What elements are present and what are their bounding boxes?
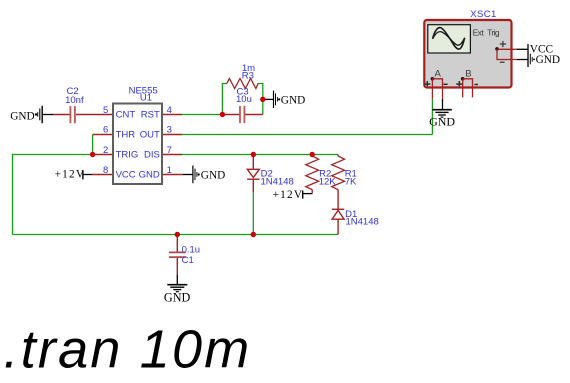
svg-text:1N4148: 1N4148	[346, 217, 379, 228]
screen	[428, 25, 471, 53]
ground below scope A-	[429, 110, 455, 129]
wire trig-left horizontal	[13, 154, 93, 156]
svg-text:GND: GND	[139, 169, 160, 180]
resistor R2	[306, 155, 336, 190]
resistor R1	[332, 155, 357, 190]
resistor R3	[227, 63, 258, 88]
wire C1 bottom lead	[176, 257, 178, 275]
svg-text:CNT: CNT	[116, 110, 136, 121]
wire TRIG stub	[93, 154, 113, 156]
wire D2 bottom lead	[252, 179, 254, 192]
svg-text:+12V: +12V	[55, 169, 86, 181]
wire R2 bottom lead	[311, 190, 313, 194]
capacitor C1	[169, 245, 200, 266]
A terminal dot	[431, 77, 435, 81]
svg-text:1: 1	[167, 165, 172, 176]
wire C3 right lead	[245, 114, 263, 116]
wire VCC pin8 stub	[92, 174, 113, 176]
junction dots	[90, 97, 315, 238]
svg-text:+12V: +12V	[273, 189, 304, 201]
svg-text:DIS: DIS	[144, 150, 160, 161]
node R2 top	[310, 152, 315, 157]
svg-text:3: 3	[167, 125, 172, 136]
node TRIG junction	[90, 152, 95, 157]
svg-text:Ext Trig: Ext Trig	[473, 28, 500, 38]
node R3 right / gnd tap	[260, 97, 265, 102]
wire C1 top lead	[176, 235, 178, 253]
svg-text:GND: GND	[201, 169, 225, 181]
wire D2 top lead	[252, 155, 254, 170]
svg-text:GND: GND	[10, 110, 34, 122]
B terminal dot	[461, 77, 465, 81]
wire C3 left lead	[222, 114, 239, 116]
svg-text:VCC: VCC	[116, 169, 136, 180]
ground symbol right (scope)	[530, 54, 560, 66]
svg-text:1N4148: 1N4148	[261, 176, 294, 187]
wire A- bracket	[432, 49, 516, 99]
wire red stubs	[53, 115, 338, 276]
wire C2 left lead	[53, 114, 70, 116]
svg-text:TRIG: TRIG	[116, 150, 139, 161]
wire RST to C3	[182, 114, 222, 116]
wire left rail vertical	[12, 154, 14, 235]
wire +12v R2 lead	[303, 193, 313, 195]
sine wave	[433, 28, 465, 49]
svg-text:THR: THR	[116, 129, 136, 140]
svg-text:C1: C1	[182, 255, 194, 266]
svg-text:7: 7	[167, 145, 172, 156]
svg-text:2: 2	[103, 145, 108, 156]
wire OUT stub	[162, 134, 182, 136]
wire gnd-pin1 lead	[183, 174, 193, 176]
wire OUT up to scope A+	[431, 99, 433, 135]
black wire segments	[42, 99, 312, 284]
wire GND pin1 stub	[162, 174, 183, 176]
ground right of C3	[274, 91, 306, 108]
wire bottom rail	[13, 234, 339, 236]
diode D1	[332, 209, 379, 228]
wire THR vertical	[92, 135, 94, 155]
svg-text:RST: RST	[141, 110, 160, 121]
svg-text:B: B	[465, 69, 471, 80]
trig terminal dot	[495, 47, 499, 51]
wire gnd-c3 lead	[264, 98, 273, 100]
ground left of C2	[10, 106, 42, 123]
wire D2 bottom segment	[252, 192, 254, 234]
wire C1 gnd lead	[176, 275, 178, 284]
node D2 bottom	[251, 232, 256, 237]
svg-text:GND: GND	[536, 54, 560, 66]
diode D2	[247, 168, 294, 187]
trig minus	[500, 61, 505, 63]
wire trig vcc black leads	[443, 49, 528, 109]
wire DIS stub	[162, 154, 182, 156]
wire OUT long horizontal	[182, 134, 432, 136]
svg-text:XSC1: XSC1	[470, 9, 496, 20]
svg-text:GND: GND	[281, 95, 305, 107]
wire DIS horizontal	[182, 154, 338, 156]
wire C3 left up to R3	[222, 84, 226, 115]
svg-text:U1: U1	[140, 93, 152, 104]
svg-text:7K: 7K	[345, 177, 357, 188]
svg-text:4: 4	[167, 105, 172, 116]
svg-text:10u: 10u	[236, 94, 252, 105]
A plus	[424, 81, 430, 86]
svg-text:GND: GND	[429, 115, 455, 129]
ground below C1	[164, 285, 191, 305]
wire R3 right down	[258, 84, 263, 115]
trig plus	[500, 41, 506, 47]
wire CNT stub	[76, 114, 113, 116]
svg-text:8: 8	[103, 165, 108, 176]
svg-text:A: A	[435, 69, 442, 80]
wire D1 bottom lead	[337, 219, 339, 234]
node C1 top	[175, 232, 180, 237]
wire RST stub	[162, 114, 182, 116]
svg-text:10nf: 10nf	[65, 95, 84, 106]
svg-text:0.1u: 0.1u	[182, 245, 201, 256]
svg-text:OUT: OUT	[140, 129, 160, 140]
node RST/C3/R3 left	[220, 112, 225, 117]
wire +12v pin8 lead	[83, 174, 92, 176]
+12V terminal at R2	[273, 189, 304, 201]
B plus	[456, 81, 462, 86]
svg-text:6: 6	[103, 125, 108, 136]
B minus	[474, 84, 478, 86]
svg-text:.tran 10m: .tran 10m	[4, 320, 252, 380]
wire R1 to D1 lead	[337, 190, 339, 210]
green net wires	[13, 84, 433, 235]
svg-text:GND: GND	[164, 291, 191, 305]
oscilloscope XSC1	[424, 9, 527, 110]
capacitor C2	[65, 86, 84, 123]
svg-text:R3: R3	[242, 70, 254, 81]
+12V terminal at pin 8	[55, 169, 86, 181]
wire gnd-left lead	[42, 114, 53, 116]
VCC power symbol	[528, 43, 553, 67]
node D2 top	[251, 152, 256, 157]
A minus	[443, 83, 447, 85]
ground at pin 1	[193, 166, 225, 184]
capacitor C3	[236, 87, 252, 124]
svg-text:5: 5	[103, 105, 108, 116]
IC U1 NE555 timer	[103, 85, 172, 184]
wire THR stub	[93, 134, 113, 136]
